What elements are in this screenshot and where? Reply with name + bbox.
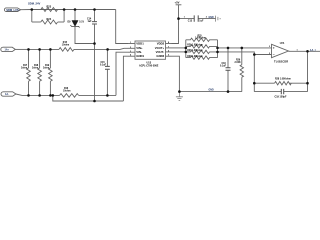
zener diode D9 [72, 21, 78, 27]
resistor R29 vertical [240, 48, 243, 92]
wire feedback drop from output [307, 51, 309, 91]
junction node (217.5,47.9) [216, 47, 219, 50]
svg-text:GND: GND [209, 17, 214, 19]
svg-text:10ohm: 10ohm [62, 45, 69, 47]
wire inverting input [254, 54, 271, 56]
resistor R16 10ohm [60, 94, 79, 98]
wire GND1 riser to pin [123, 56, 128, 101]
svg-text:C14: C14 [87, 17, 92, 20]
wire feedback upper row [254, 82, 307, 84]
junction node (228,91.6) [227, 90, 230, 93]
port 1A- [1, 92, 16, 96]
svg-text:2ohm: 2ohm [43, 67, 49, 69]
svg-text:ACPL-C790-500E: ACPL-C790-500E [139, 64, 159, 67]
ground sideways [216, 16, 221, 22]
gain network right bar [217, 40, 219, 58]
wire VIN- bottom rail [29, 94, 117, 96]
junction node (241.8,47.9) [241, 47, 244, 50]
pin stub VDD2 [166, 43, 172, 45]
svg-text:D9: D9 [68, 22, 72, 24]
junction node (39.6,95.4) [38, 94, 41, 97]
junction node (28.5,49.4) [27, 48, 30, 51]
svg-text:R27 1.00Kohm: R27 1.00Kohm [187, 50, 203, 52]
pin stub VIN+ [128, 47, 135, 49]
svg-text:U7A: U7A [280, 42, 285, 45]
svg-text:VDD1: VDD1 [136, 42, 144, 46]
capacitor C15 lead bottom [106, 69, 108, 95]
port 1A+ [1, 47, 16, 51]
wire VOUT+ to divider bar [172, 47, 186, 49]
capacitor C14 lead top [94, 10, 96, 22]
resistor R27 [186, 50, 218, 53]
svg-text:R23: R23 [47, 5, 52, 8]
junction node (254.3,83.2) [253, 82, 256, 85]
resistor R24 [41, 20, 58, 24]
svg-text:TL082CDR: TL082CDR [274, 60, 288, 64]
wire port3 to bottom rail [16, 94, 29, 95]
junction node (178.5,18.6) [177, 17, 180, 20]
svg-text:C13: C13 [188, 21, 193, 23]
svg-text:GND1: GND1 [136, 54, 144, 58]
svg-text:+5V: +5V [175, 0, 180, 4]
pin stub VIN- [128, 51, 135, 53]
junction node (52.8,95.4) [52, 94, 55, 97]
shunt resistor R19 [49, 49, 53, 95]
capacitor C18 lead [227, 48, 229, 92]
junction node (254.3,54.5) [253, 53, 256, 56]
junction node (50.4,95.4) [49, 94, 52, 97]
resistor R28 feedback [275, 82, 292, 85]
svg-text:2ohm: 2ohm [32, 67, 38, 69]
junction node (50.4,49.4) [49, 48, 52, 51]
wire decoupling row [179, 18, 216, 20]
capacitor C14 [92, 22, 97, 24]
svg-text:R26 1.00Kohm: R26 1.00Kohm [187, 45, 203, 47]
svg-text:1A+: 1A+ [5, 48, 10, 51]
svg-text:GND2: GND2 [156, 54, 164, 58]
svg-text:2.00K: 2.00K [235, 62, 241, 64]
junction node (94.5,101) [93, 100, 96, 103]
svg-text:1uF: 1uF [88, 21, 93, 23]
resistor R30 bottom [186, 56, 218, 59]
wire parallel loop bottom right [58, 21, 64, 23]
svg-text:GND: GND [209, 90, 214, 92]
svg-text:0.1uF: 0.1uF [100, 65, 107, 67]
svg-text:R30 1.00Kohm: R30 1.00Kohm [187, 56, 203, 58]
pin stub VOUT- [166, 51, 172, 53]
wire parallel loop left [31, 10, 33, 23]
wire upper rail to opamp [218, 47, 272, 49]
wire feedback cap row [254, 91, 307, 93]
wire top 24V rail [32, 9, 116, 11]
svg-text:1.00Kohm: 1.00Kohm [195, 38, 206, 40]
wire port1 to node [21, 9, 32, 11]
junction node (179.4,91.6) [178, 90, 181, 93]
svg-text:R15: R15 [63, 42, 68, 44]
capacitor C14 lead bottom (continues to GND1 line) [94, 24, 96, 101]
junction node (75,9.5) [74, 8, 77, 11]
pin stub VOUT+ [166, 47, 172, 49]
gain network left bar [185, 40, 187, 58]
wire opamp output [289, 50, 320, 52]
junction node (185.8,51.9) [185, 51, 188, 54]
wire GND1 kelvin drop [53, 95, 124, 101]
junction node (94.5,43.5) [93, 42, 96, 45]
wire parallel loop bottom left [32, 21, 41, 23]
pin stub GND1 [128, 55, 135, 57]
svg-text:R24: R24 [47, 18, 52, 21]
op-amp U7A [272, 44, 289, 57]
IC U13 box [135, 41, 166, 59]
svg-text:C15: C15 [101, 62, 106, 64]
capacitor C13 [194, 15, 198, 21]
wire GND2 drop [172, 56, 180, 91]
capacitor C18 [226, 68, 231, 71]
svg-text:C19 150pF: C19 150pF [275, 96, 287, 99]
svg-text:1uF: 1uF [199, 21, 204, 23]
junction node (107.4,95.4) [106, 94, 109, 97]
wire VOUT- to divider bar [172, 51, 186, 53]
pin stub GND2 [166, 55, 172, 57]
wire VDD2 to +5V [172, 5, 179, 44]
shunt resistor R17 [27, 49, 31, 95]
resistor R25 top [186, 38, 218, 41]
svg-text:2ohm: 2ohm [21, 67, 27, 69]
wire inverting node down [253, 55, 255, 92]
svg-text:R16: R16 [64, 88, 69, 90]
wire VIN+ rail [29, 48, 129, 49]
ground symbol [176, 92, 183, 101]
zener lead bottom and corner to node [75, 26, 95, 43]
wire lower rail [218, 52, 255, 55]
junction node (94.5,9.5) [93, 8, 96, 11]
zener diode lead top [74, 10, 76, 21]
resistor R15 10ohm [59, 48, 74, 52]
junction node (28.5,95.4) [27, 94, 30, 97]
shunt resistor R18 [38, 49, 42, 95]
svg-text:0.1uF: 0.1uF [220, 65, 227, 67]
svg-text:10ohm: 10ohm [63, 91, 70, 93]
junction node (39.6,49.4) [38, 48, 41, 51]
junction node (228,47.9) [227, 47, 230, 50]
svg-text:SDM_LVS: SDM_LVS [6, 8, 19, 12]
power flag +5V [176, 4, 182, 6]
junction node (31.8,9.5) [31, 8, 34, 11]
junction node (185.8,47.9) [185, 47, 188, 50]
junction node (307.5,83.2) [306, 82, 309, 85]
capacitor C15 [105, 66, 110, 69]
svg-text:SDM_24V: SDM_24V [28, 1, 40, 5]
svg-text:5.1V: 5.1V [79, 22, 84, 24]
junction node (217.5,51.9) [216, 51, 219, 54]
svg-text:1A-: 1A- [5, 93, 9, 96]
svg-text:VDD2: VDD2 [157, 42, 165, 46]
pin stub VDD1 [128, 43, 135, 45]
svg-text:1A_I: 1A_I [310, 48, 316, 52]
junction node (307.5,51.3) [306, 50, 309, 53]
resistor R26 [186, 45, 218, 48]
resistor R23 [41, 8, 58, 12]
ground rail [179, 91, 241, 93]
junction node (64.1,9.5) [63, 8, 66, 11]
svg-text:R28 1.00Kohm: R28 1.00Kohm [275, 78, 291, 80]
capacitor C15 lead top [106, 49, 108, 66]
wire parallel loop riser [63, 10, 65, 23]
wire VIN- riser to pin [116, 52, 128, 95]
port SDM_LVS [4, 8, 20, 12]
wire VDD1 drop from top rail [116, 10, 128, 44]
capacitor C19 feedback [281, 89, 283, 94]
wire port2 to shunt rail [15, 48, 28, 50]
junction node (107.6,49.4) [106, 48, 109, 51]
